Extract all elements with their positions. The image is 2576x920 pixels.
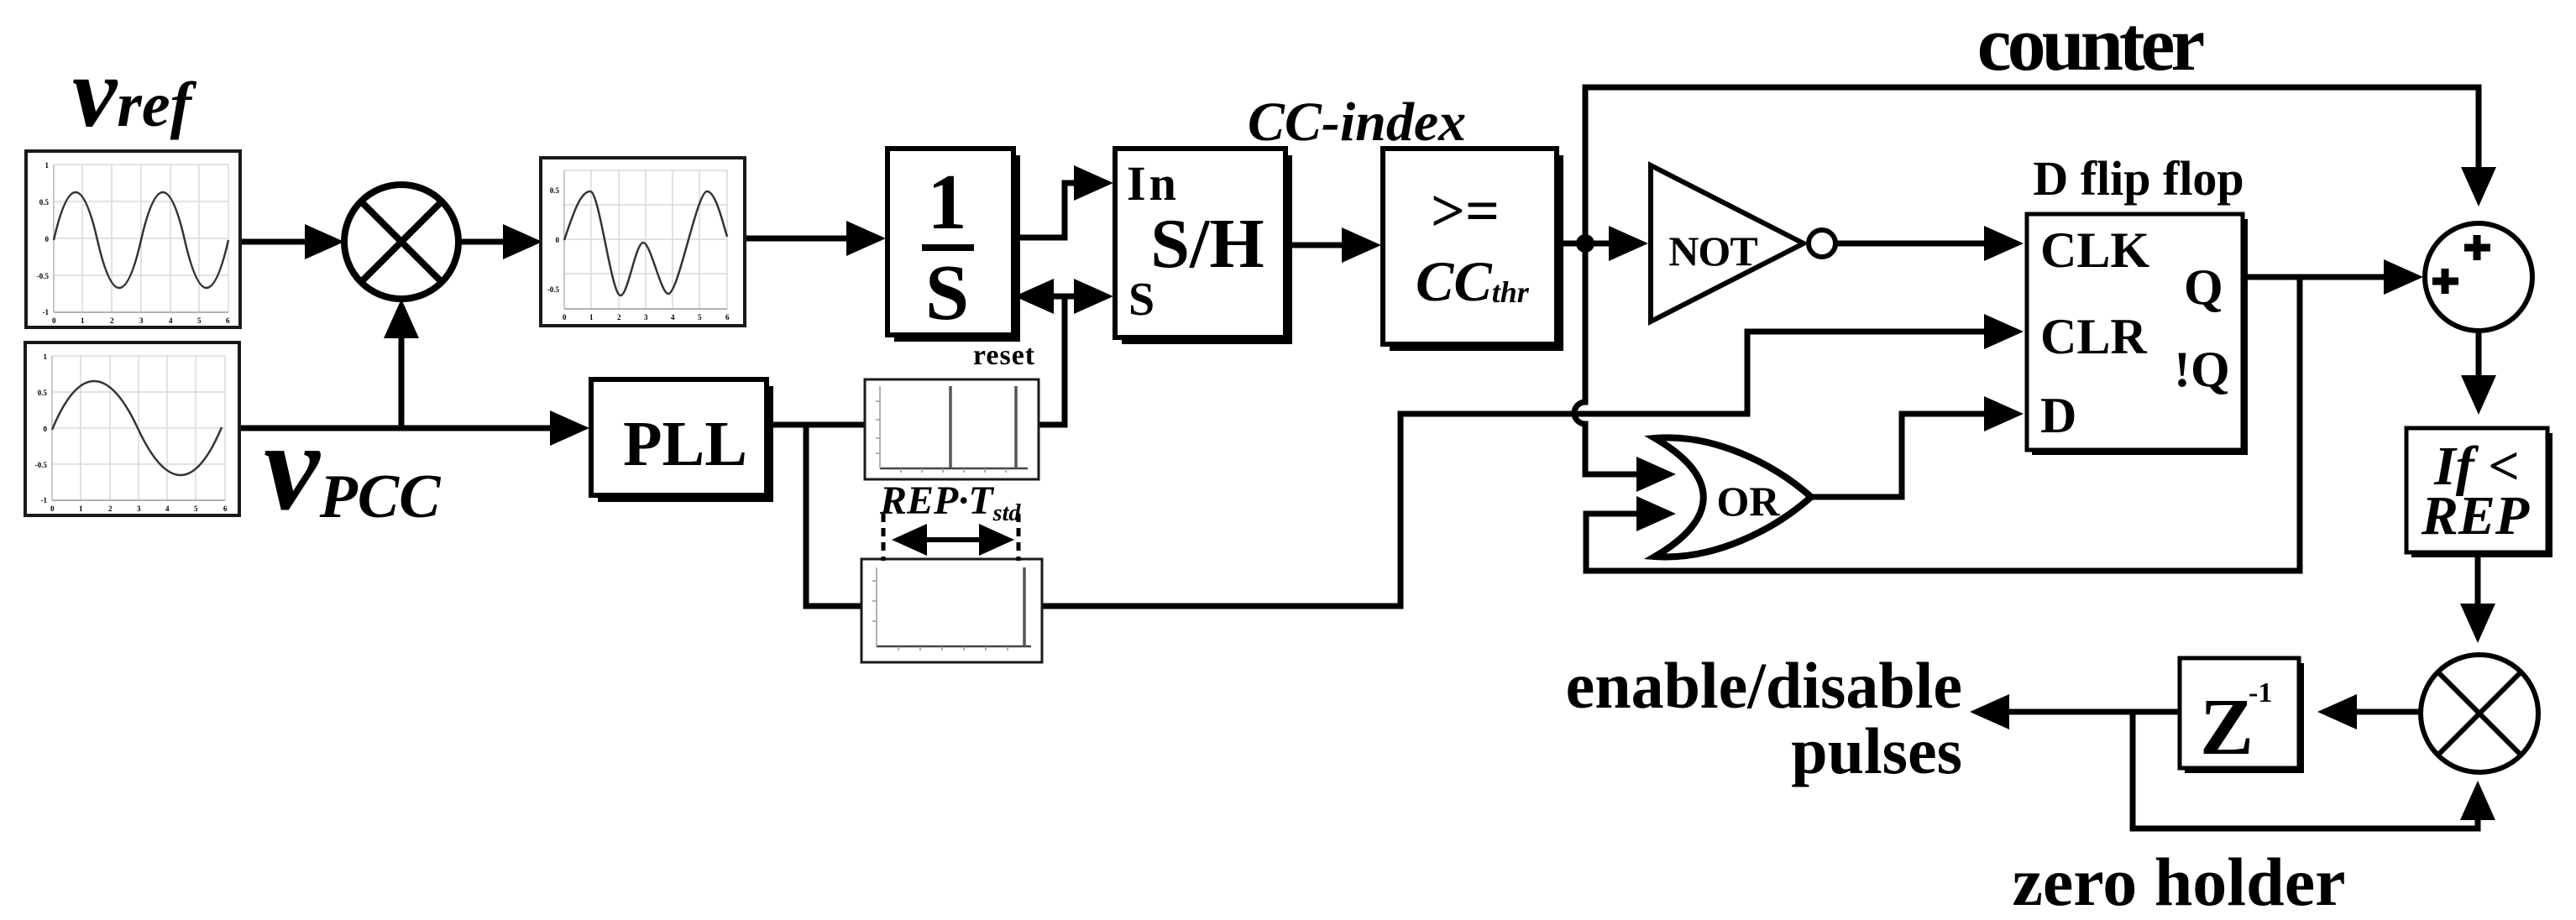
svg-text:2: 2 xyxy=(108,504,113,513)
svg-text:2: 2 xyxy=(110,316,114,325)
svg-text:1: 1 xyxy=(81,316,85,325)
svg-text:5: 5 xyxy=(197,316,202,325)
svg-text:0: 0 xyxy=(52,316,56,325)
svg-text:S/H: S/H xyxy=(1150,205,1264,283)
svg-text:0: 0 xyxy=(563,313,567,321)
svg-text:0: 0 xyxy=(556,236,560,244)
svg-text:5: 5 xyxy=(194,504,198,513)
svg-text:D: D xyxy=(2040,388,2076,443)
svg-text:1: 1 xyxy=(79,504,83,513)
svg-text:6: 6 xyxy=(223,504,228,513)
svg-text:In: In xyxy=(1127,156,1180,211)
svg-text:0.5: 0.5 xyxy=(38,389,48,397)
svg-text:CLR: CLR xyxy=(2040,309,2147,364)
svg-text:REP: REP xyxy=(2421,485,2530,546)
svg-text:1: 1 xyxy=(928,159,967,246)
svg-text:-0.5: -0.5 xyxy=(35,461,48,469)
svg-text:reset: reset xyxy=(973,340,1035,371)
svg-text:CLK: CLK xyxy=(2040,222,2149,278)
svg-text:!Q: !Q xyxy=(2174,342,2230,397)
svg-text:Q: Q xyxy=(2184,259,2223,315)
svg-text:4: 4 xyxy=(169,316,173,325)
svg-text:-0.5: -0.5 xyxy=(37,272,50,280)
svg-text:0: 0 xyxy=(50,504,55,513)
svg-text:2: 2 xyxy=(617,313,621,321)
svg-text:1: 1 xyxy=(44,353,48,361)
svg-text:counter: counter xyxy=(1977,1,2204,86)
svg-text:-1: -1 xyxy=(2249,677,2272,708)
svg-text:3: 3 xyxy=(139,316,144,325)
svg-text:0: 0 xyxy=(44,425,48,433)
svg-text:6: 6 xyxy=(226,316,230,325)
svg-text:pulses: pulses xyxy=(1791,714,1962,787)
svg-text:Z: Z xyxy=(2200,682,2254,771)
svg-text:0: 0 xyxy=(45,235,50,243)
svg-text:S: S xyxy=(925,249,969,337)
svg-text:5: 5 xyxy=(698,313,702,321)
svg-text:3: 3 xyxy=(644,313,648,321)
svg-text:CC-index: CC-index xyxy=(1248,91,1466,153)
svg-text:1: 1 xyxy=(589,313,594,321)
svg-text:>=: >= xyxy=(1431,177,1500,244)
svg-text:-0.5: -0.5 xyxy=(547,285,560,294)
svg-text:3: 3 xyxy=(137,504,141,513)
svg-text:-1: -1 xyxy=(41,496,48,504)
svg-text:S: S xyxy=(1128,274,1154,326)
svg-text:4: 4 xyxy=(671,313,675,321)
svg-text:-1: -1 xyxy=(43,308,50,316)
svg-text:OR: OR xyxy=(1717,478,1781,525)
svg-text:enable/disable: enable/disable xyxy=(1566,649,1962,722)
svg-text:6: 6 xyxy=(725,313,730,321)
svg-text:NOT: NOT xyxy=(1668,227,1757,274)
svg-text:0.5: 0.5 xyxy=(39,198,50,206)
svg-text:PLL: PLL xyxy=(623,409,747,479)
svg-text:zero holder: zero holder xyxy=(2013,844,2346,920)
svg-text:0.5: 0.5 xyxy=(550,186,560,195)
svg-text:1: 1 xyxy=(45,161,50,170)
svg-text:4: 4 xyxy=(165,504,170,513)
svg-text:D flip flop: D flip flop xyxy=(2033,151,2244,206)
